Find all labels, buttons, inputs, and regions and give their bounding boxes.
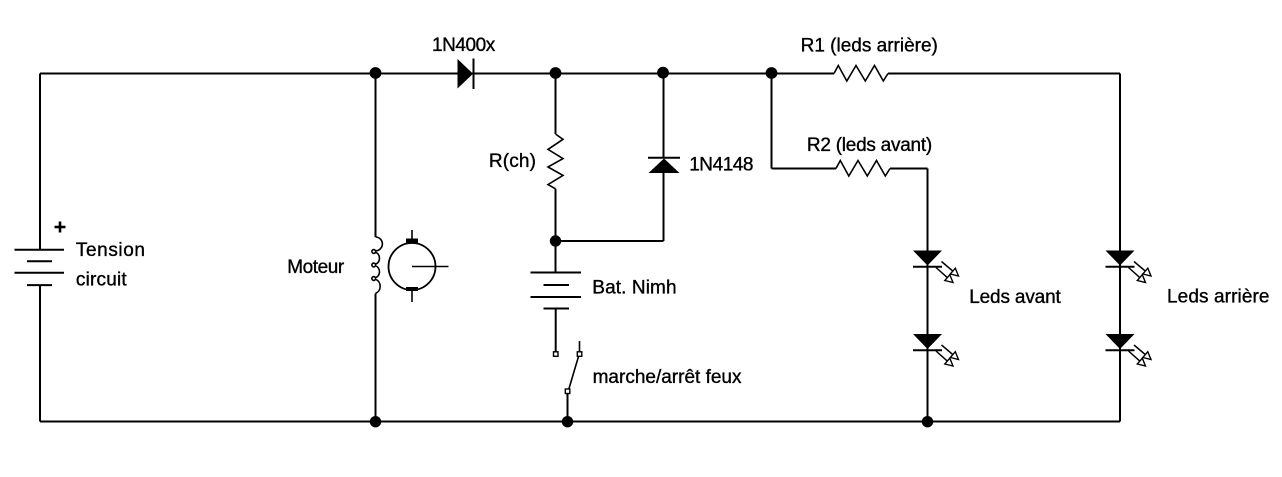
svg-text:Leds avant: Leds avant — [969, 287, 1061, 308]
svg-text:R2 (leds avant): R2 (leds avant) — [807, 135, 932, 156]
svg-text:circuit: circuit — [76, 270, 128, 291]
svg-text:R(ch): R(ch) — [489, 151, 536, 172]
svg-text:Bat. Nimh: Bat. Nimh — [592, 278, 676, 299]
svg-text:1N4148: 1N4148 — [689, 155, 753, 176]
svg-text:1N400x: 1N400x — [432, 35, 496, 56]
svg-text:Leds arrière: Leds arrière — [1167, 287, 1270, 308]
svg-text:R1 (leds arrière): R1 (leds arrière) — [801, 36, 938, 57]
svg-text:marche/arrêt feux: marche/arrêt feux — [593, 367, 742, 388]
svg-text:Tension: Tension — [76, 240, 146, 261]
svg-text:Moteur: Moteur — [287, 257, 345, 278]
